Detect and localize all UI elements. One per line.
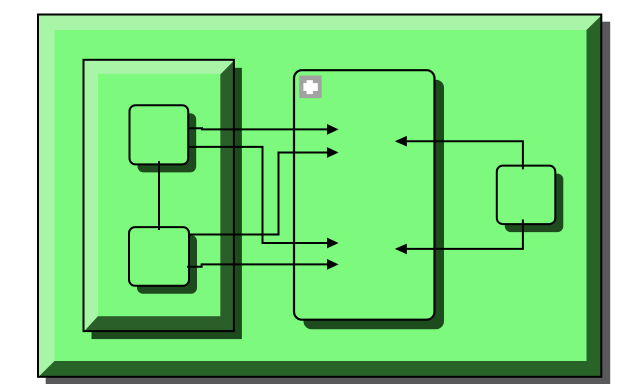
wire W2 A to arrow3 bbox=[189, 147, 329, 243]
plus icon bbox=[299, 76, 322, 99]
wire W4 C to arrow4 bbox=[187, 264, 328, 266]
arrowhead 4 bbox=[327, 259, 339, 270]
wire W3 C to arrow2 bbox=[189, 153, 328, 235]
arrowhead 5 bbox=[395, 136, 407, 147]
arrowhead 6 bbox=[395, 244, 407, 255]
arrowhead 1 bbox=[327, 124, 339, 135]
chip inner face bbox=[55, 30, 587, 361]
block C shadow bbox=[137, 235, 197, 294]
wire W6 B bottom to arrow6 bbox=[405, 220, 523, 249]
arrowhead 3 bbox=[327, 238, 339, 249]
block A bbox=[130, 105, 189, 164]
panel bevel dark face bbox=[84, 61, 234, 331]
block A shadow bbox=[138, 113, 197, 172]
composite box bbox=[294, 70, 435, 320]
wire A-C vertical link bbox=[158, 161, 160, 230]
wire W5 B top to arrow5 bbox=[405, 141, 523, 169]
block C bbox=[129, 227, 189, 286]
panel outline bbox=[84, 60, 234, 331]
panel drop shadow bbox=[92, 68, 242, 339]
composite box shadow bbox=[304, 80, 445, 330]
wire W1 A to arrow1 bbox=[189, 128, 329, 129]
block B bbox=[497, 166, 556, 225]
panel inner face bbox=[98, 74, 220, 316]
panel bevel light face bbox=[84, 60, 234, 331]
block B shadow bbox=[505, 174, 564, 233]
arrowhead 2 bbox=[327, 147, 339, 158]
